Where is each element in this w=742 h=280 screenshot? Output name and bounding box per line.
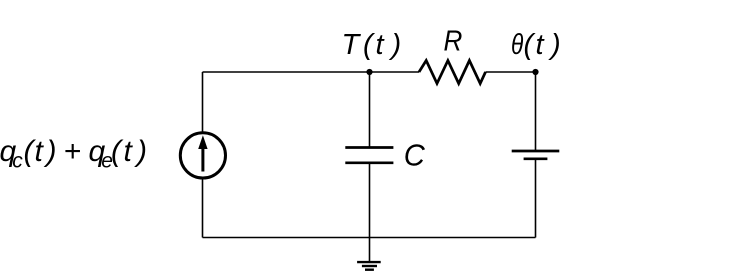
wire middle vertical lower (capacitor to bottom wire)	[369, 164, 371, 238]
resistor R	[419, 61, 486, 84]
wire ground stub	[369, 238, 371, 262]
svg-text:qc(t)+qe(t): qc(t)+qe(t)	[0, 135, 147, 172]
svg-text:R: R	[444, 24, 463, 57]
wire node T to resistor	[370, 71, 420, 73]
wire middle vertical upper (node T to capacitor)	[369, 72, 371, 147]
svg-text:C: C	[404, 139, 425, 173]
wire top-left horizontal (left corner to node T)	[203, 71, 370, 73]
ground	[357, 262, 381, 270]
current source qc+qe	[180, 133, 225, 178]
svg-text:T(t): T(t)	[342, 29, 402, 61]
svg-text:θ: θ	[511, 27, 523, 60]
battery (fixed temperature source)	[512, 151, 560, 159]
wire left vertical lower (current source to bottom corner)	[202, 180, 204, 238]
wire right vertical lower (battery to bottom corner)	[535, 160, 537, 238]
wire left vertical upper (corner to current source)	[202, 72, 204, 132]
node T(t) junction dot	[366, 69, 372, 75]
svg-text:(t): (t)	[524, 29, 561, 61]
node theta(t) junction dot	[532, 69, 538, 75]
wire resistor to node theta	[486, 71, 536, 73]
capacitor C	[345, 148, 393, 163]
wire right vertical upper (node theta to battery)	[535, 72, 537, 150]
wire bottom horizontal	[203, 237, 536, 239]
